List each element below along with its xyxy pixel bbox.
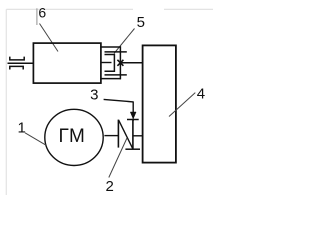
element 2 left plate	[117, 120, 119, 148]
leader line to block 6	[40, 24, 59, 52]
arrow head onto element 2	[130, 112, 136, 119]
coupling symbol bottom bracket	[10, 66, 23, 69]
element 5 right frame line	[119, 46, 121, 79]
leader line to element 2	[109, 138, 127, 178]
element 5 upper frame line	[100, 46, 121, 48]
element 2 top bar	[127, 119, 139, 121]
element 5 lower wheel line	[105, 74, 127, 76]
wire element 2 to block 4	[133, 135, 143, 137]
motor GM circle	[45, 109, 103, 165]
svg-text:1: 1	[18, 119, 26, 136]
page border left	[5, 9, 7, 195]
svg-text:3: 3	[90, 86, 98, 103]
cursor bar near label 6	[36, 8, 38, 25]
element 5 inner bracket	[105, 55, 115, 72]
node 3 wire vertical drop	[132, 101, 134, 114]
coupling symbol top bracket	[10, 57, 24, 60]
leader line to block 4	[169, 93, 195, 117]
node 3 wire horizontal	[104, 99, 134, 102]
X joint mark on shaft	[117, 60, 123, 66]
block 6 (engine box)	[33, 43, 101, 83]
wire shaft into block 6	[8, 62, 34, 64]
element 5 upper wheel line	[105, 51, 127, 53]
element 5 input stub	[101, 62, 112, 64]
leader line to motor circle	[25, 133, 46, 145]
element 2 diagonal	[119, 120, 133, 149]
element 2 right plate	[132, 120, 134, 149]
svg-text:ГМ: ГМ	[59, 126, 86, 147]
svg-text:4: 4	[197, 86, 205, 103]
arrow tip poke below bar	[132, 119, 134, 122]
block 4 (tall box)	[143, 45, 176, 162]
wire motor to element 2	[104, 135, 118, 137]
element 5 lower frame line	[100, 78, 121, 80]
svg-text:2: 2	[106, 178, 114, 195]
element 2 bottom bar	[125, 148, 140, 150]
page border top segment left	[6, 8, 133, 10]
wire element 5 to block 4	[120, 62, 142, 64]
leader line to element 5	[114, 29, 135, 54]
page border top segment right	[164, 8, 213, 10]
svg-text:5: 5	[137, 14, 145, 31]
svg-text:6: 6	[38, 5, 46, 21]
